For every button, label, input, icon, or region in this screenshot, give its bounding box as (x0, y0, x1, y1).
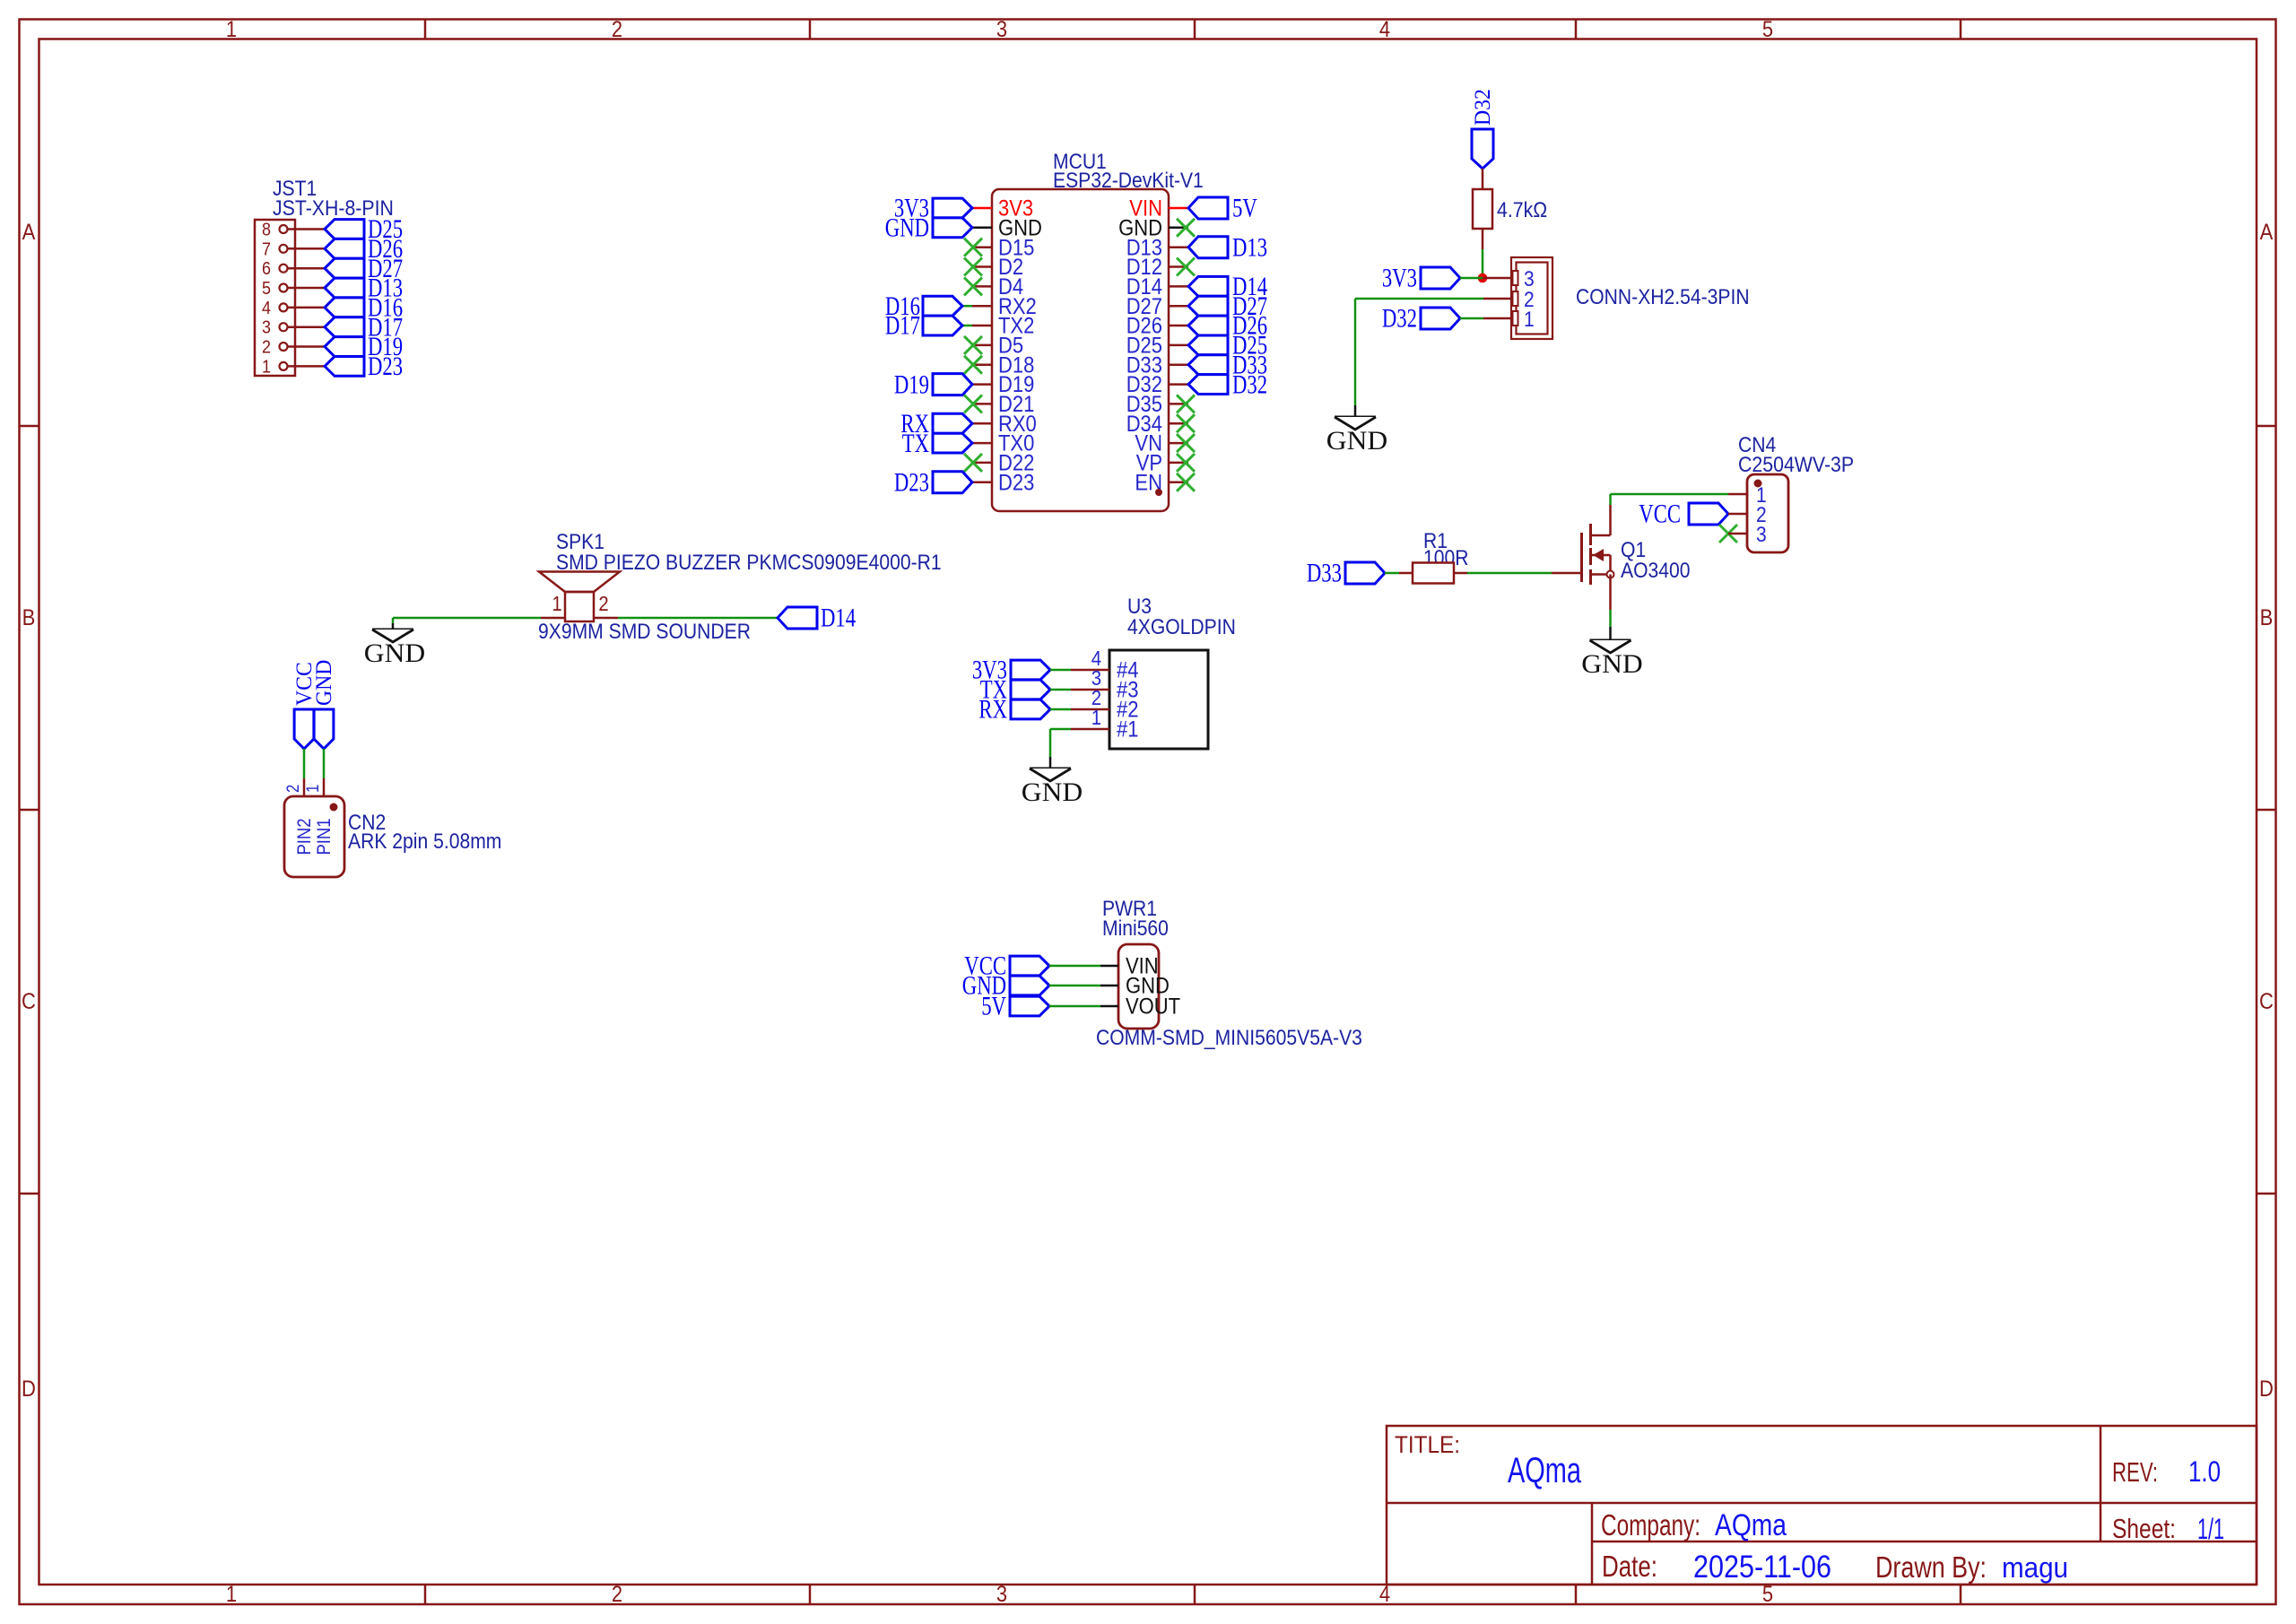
MCU pin D34 (right) (1126, 412, 1188, 437)
connector JST1 JST-XH-8-PIN (255, 177, 394, 377)
net flag D19 (933, 374, 972, 395)
wire spk pin1 to GND (393, 618, 541, 630)
MCU pin TX0 (left) (972, 431, 1034, 456)
svg-text:3V3: 3V3 (1382, 265, 1417, 293)
no-connect D2 (964, 258, 982, 276)
svg-text:1.0: 1.0 (2188, 1455, 2221, 1488)
MCU pin D15 (left) (972, 235, 1034, 260)
MCU pin D19 (left) (972, 372, 1034, 397)
svg-text:magu: magu (2002, 1551, 2068, 1584)
net flag TX (1011, 680, 1050, 699)
svg-text:5: 5 (1762, 17, 1773, 42)
net flag D26 (1188, 316, 1228, 335)
svg-text:AQma: AQma (1508, 1451, 1582, 1490)
no-connect CN4 pin3 (1719, 525, 1737, 543)
wire (1482, 229, 1484, 278)
connector CN4 C2504WV-3P (1738, 433, 1854, 552)
net flag D14 (778, 607, 817, 629)
net flag D26 (325, 239, 364, 258)
wire (1050, 708, 1071, 711)
svg-text:D23: D23 (368, 352, 403, 381)
svg-text:5V: 5V (981, 993, 1006, 1021)
net flag D23 (325, 357, 364, 377)
ground (1590, 639, 1631, 642)
MCU pin D14 (right) (1126, 274, 1188, 300)
net flag RX (1011, 699, 1050, 719)
svg-text:1: 1 (1524, 308, 1535, 332)
svg-text:1: 1 (304, 785, 323, 793)
MCU pin GND (left) (972, 215, 1042, 240)
svg-text:D13: D13 (1232, 233, 1267, 262)
no-connect D18 (964, 356, 982, 374)
net flag D17 (923, 316, 962, 335)
net flag 5V (1010, 996, 1049, 1016)
MCU pin D21 (left) (972, 392, 1034, 417)
svg-text:GND: GND (1581, 650, 1642, 679)
svg-text:B: B (2260, 605, 2274, 630)
svg-text:D23: D23 (998, 470, 1034, 495)
MCU pin D4 (left) (972, 274, 1023, 300)
net flag D33 (1345, 562, 1385, 584)
no-connect D5 (964, 336, 982, 354)
net flag 5V (1188, 197, 1228, 219)
net flag 3V3 (1011, 660, 1050, 680)
svg-text:GND: GND (1326, 427, 1387, 456)
no-connect VP (1177, 454, 1195, 472)
connector CONN-XH2.54-3PIN (1511, 257, 1750, 339)
MCU pin VP (right) (1136, 451, 1188, 476)
svg-text:COMM-SMD_MINI5605V5A-V3: COMM-SMD_MINI5605V5A-V3 (1096, 1026, 1362, 1050)
wire (1049, 965, 1100, 968)
net flag GND (933, 218, 972, 238)
svg-text:7: 7 (262, 239, 271, 259)
svg-text:6: 6 (262, 258, 271, 279)
net flag VCC (1689, 503, 1728, 525)
resistor R1 100R (1399, 529, 1469, 584)
svg-text:2: 2 (284, 785, 303, 793)
net flag D16 (325, 298, 364, 317)
svg-text:ARK 2pin 5.08mm: ARK 2pin 5.08mm (348, 829, 501, 854)
svg-text:C: C (2259, 989, 2274, 1014)
svg-text:5: 5 (262, 278, 271, 299)
svg-text:PIN1: PIN1 (314, 818, 335, 855)
svg-text:3: 3 (996, 1582, 1007, 1607)
net flag VCC (1010, 956, 1049, 976)
MCU pin RX0 (left) (972, 412, 1037, 437)
MCU pin VN (right) (1135, 431, 1188, 456)
MCU pin D13 (right) (1126, 235, 1188, 260)
MCU pin D25 (right) (1126, 334, 1188, 359)
MCU pin D26 (right) (1126, 314, 1188, 339)
svg-text:1: 1 (1091, 706, 1101, 729)
svg-text:GND: GND (885, 214, 929, 243)
wire (1385, 572, 1399, 575)
net flag TX (933, 433, 972, 453)
no-connect D15 (964, 239, 982, 256)
resistor 4.7k (1473, 189, 1547, 229)
no-connect D4 (964, 277, 982, 295)
wire (1050, 669, 1071, 672)
svg-text:4: 4 (1379, 17, 1390, 42)
net flag D23 (933, 472, 972, 493)
net flag D32 (vertical) (1472, 129, 1493, 169)
svg-text:D32: D32 (1232, 370, 1267, 399)
svg-text:D23: D23 (894, 469, 929, 498)
svg-text:A: A (2260, 220, 2274, 245)
net flag D27 (1188, 296, 1228, 316)
svg-text:Company:: Company: (1601, 1508, 1700, 1541)
svg-text:REV:: REV: (2112, 1456, 2158, 1488)
header U3 4XGOLDPIN (1071, 595, 1236, 749)
svg-text:VCC: VCC (1639, 500, 1681, 529)
wire (1728, 513, 1747, 516)
svg-text:1: 1 (262, 356, 271, 377)
svg-text:1: 1 (552, 592, 561, 615)
MCU pin GND (right) (1118, 215, 1188, 240)
MCU pin D23 (left) (972, 470, 1034, 495)
svg-text:GND: GND (312, 660, 336, 706)
MCU pin D2 (left) (972, 255, 1023, 280)
svg-text:2: 2 (612, 1582, 622, 1607)
wire (1049, 985, 1100, 987)
no-connect EN (1177, 473, 1195, 491)
net flag D33 (1188, 355, 1228, 375)
net flag D14 (1188, 276, 1228, 296)
wire (1049, 1005, 1100, 1008)
net flag D19 (325, 337, 364, 357)
net flag D16 (923, 296, 962, 316)
svg-text:3: 3 (262, 317, 271, 338)
title block (1387, 1426, 2257, 1585)
svg-text:4.7kΩ: 4.7kΩ (1497, 198, 1547, 222)
svg-text:3: 3 (1756, 523, 1767, 547)
module PWR1 Mini560 (1096, 897, 1362, 1050)
net flag D25 (325, 220, 364, 239)
speaker SPK1 buzzer (538, 530, 942, 644)
MCU pin D22 (left) (972, 451, 1034, 476)
MCU pin D5 (left) (972, 334, 1023, 359)
svg-text:TITLE:: TITLE: (1395, 1431, 1460, 1458)
svg-text:#1: #1 (1117, 717, 1139, 743)
no-connect VN (1177, 434, 1195, 452)
svg-text:A: A (22, 220, 36, 245)
MCU pin D12 (right) (1126, 255, 1188, 280)
svg-text:3: 3 (996, 17, 1007, 42)
wire (304, 749, 324, 796)
no-connect D22 (964, 454, 982, 472)
net flag D25 (1188, 335, 1228, 355)
svg-text:D32: D32 (1471, 89, 1495, 126)
svg-text:Date:: Date: (1602, 1550, 1657, 1583)
MCU pin RX2 (left) (972, 294, 1037, 319)
net flag D17 (325, 317, 364, 337)
MCU pin D27 (right) (1126, 294, 1188, 319)
net flag GND (vertical) (314, 709, 334, 749)
MCU U1 ESP32-DevKit-V1 body (992, 150, 1204, 511)
svg-text:D33: D33 (1307, 560, 1342, 588)
svg-text:2025-11-06: 2025-11-06 (1693, 1550, 1831, 1585)
svg-text:D32: D32 (1382, 305, 1417, 334)
svg-text:9X9MM SMD SOUNDER: 9X9MM SMD SOUNDER (538, 620, 751, 644)
svg-text:1/1: 1/1 (2197, 1513, 2224, 1545)
net flag D27 (325, 258, 364, 278)
wire R1 to Q1 gate (1467, 572, 1552, 575)
svg-text:D17: D17 (885, 312, 920, 341)
ground (1030, 768, 1071, 770)
svg-text:GND: GND (1022, 778, 1083, 807)
ground (372, 629, 413, 631)
no-connect D35 (1177, 395, 1195, 413)
net flag D13 (325, 278, 364, 298)
net flag D32 (1188, 375, 1228, 395)
svg-text:D: D (2259, 1376, 2274, 1402)
wire to D17 (962, 325, 972, 327)
svg-text:CONN-XH2.54-3PIN: CONN-XH2.54-3PIN (1576, 285, 1750, 309)
svg-text:5V: 5V (1232, 195, 1257, 223)
svg-text:C: C (22, 989, 36, 1014)
wire Q1 source to GND (1609, 610, 1612, 640)
MCU pin D32 (right) (1126, 372, 1188, 397)
MCU pin EN (right) (1135, 470, 1188, 495)
MCU pin D33 (right) (1126, 352, 1188, 378)
no-connect D12 (1177, 258, 1195, 276)
net flag D32 (1421, 308, 1460, 329)
svg-text:RX: RX (978, 696, 1007, 725)
svg-text:1: 1 (226, 17, 237, 42)
svg-text:AO3400: AO3400 (1621, 559, 1691, 583)
connector CN2 ARK 2pin 5.08mm (284, 785, 501, 877)
MCU EN pin dot (1155, 489, 1162, 496)
svg-text:PIN2: PIN2 (294, 818, 315, 855)
svg-text:D19: D19 (894, 370, 929, 399)
wire pin2 to GND (1355, 299, 1511, 417)
svg-text:4XGOLDPIN: 4XGOLDPIN (1127, 615, 1236, 639)
wire (1460, 277, 1511, 280)
net flag VCC (vertical) (294, 709, 314, 749)
svg-text:4: 4 (262, 298, 271, 318)
svg-text:D14: D14 (821, 604, 856, 633)
wire to D16 (962, 305, 972, 308)
net flag 3V3 (933, 198, 972, 218)
wire (1482, 169, 1484, 189)
svg-text:2: 2 (612, 17, 622, 42)
svg-text:VOUT: VOUT (1126, 994, 1180, 1020)
svg-text:B: B (22, 605, 36, 630)
wire (1050, 689, 1071, 691)
wire (1728, 533, 1747, 535)
MCU pin 3V3 (left) (972, 196, 1033, 221)
MCU pin TX2 (left) (972, 314, 1034, 339)
wire spk pin2 to D14 (618, 617, 778, 620)
svg-text:GND: GND (364, 639, 425, 668)
no-connect D21 (964, 395, 982, 413)
svg-text:Sheet:: Sheet: (2112, 1513, 2176, 1544)
junction (1478, 274, 1488, 283)
svg-text:1: 1 (226, 1582, 237, 1607)
svg-text:Drawn By:: Drawn By: (1875, 1550, 1987, 1584)
net flag RX (933, 413, 972, 433)
transistor Q1 AO3400 (1552, 505, 1691, 610)
svg-text:D: D (22, 1376, 36, 1402)
svg-text:AQma: AQma (1715, 1508, 1787, 1542)
wire pin1 to GND (1050, 729, 1071, 769)
wire Q1 drain to CN4 pin1 (1611, 494, 1748, 505)
no-connect GND (1177, 219, 1195, 237)
svg-text:TX: TX (902, 430, 929, 458)
MCU pin D18 (left) (972, 352, 1034, 378)
MCU pin D35 (right) (1126, 392, 1188, 417)
svg-text:Mini560: Mini560 (1102, 916, 1169, 941)
no-connect D34 (1177, 414, 1195, 432)
svg-text:8: 8 (262, 220, 271, 240)
net flag D13 (1188, 237, 1228, 258)
svg-text:2: 2 (598, 592, 608, 615)
net flag GND (1010, 976, 1049, 995)
svg-text:2: 2 (262, 337, 271, 358)
wire (1460, 317, 1511, 320)
ground (1335, 416, 1376, 419)
net flag 3V3 (1421, 267, 1460, 289)
MCU pin VIN (right) (1129, 196, 1188, 221)
